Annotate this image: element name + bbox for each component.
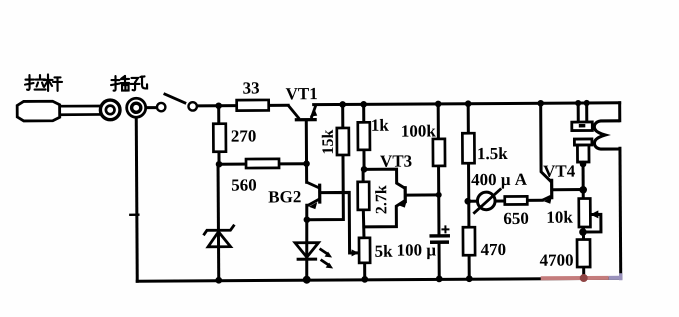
wire VT3 emitter return path <box>364 201 405 227</box>
wire BG2 collector down to LED and bottom <box>305 205 309 280</box>
earphone magnet box <box>577 145 589 162</box>
svg-text:470: 470 <box>481 240 507 259</box>
resistor 100k <box>401 121 445 166</box>
wire earphone pin 1 <box>577 103 580 122</box>
wire 10k to 4700 <box>582 227 585 239</box>
resistor 4700 <box>540 239 591 269</box>
svg-text:VT4: VT4 <box>543 162 576 181</box>
wire earphone pin 2 <box>585 103 588 122</box>
resistor 560 <box>231 159 279 195</box>
svg-text:1.5k: 1.5k <box>477 144 508 163</box>
jack symbol <box>127 98 158 117</box>
wire 1.5k top lead <box>467 104 470 133</box>
transistor VT3 <box>380 152 412 208</box>
resistor 1.5k <box>462 133 508 163</box>
wire bottom rail <box>137 278 620 281</box>
meter 400uA <box>471 170 528 214</box>
transistor VT4 <box>542 162 576 204</box>
wire right edge down to coil <box>618 103 621 121</box>
wire node to 2.7k <box>362 169 365 181</box>
svg-text:15k: 15k <box>320 129 337 154</box>
earphone plate 2 <box>574 139 592 145</box>
resistor 1k <box>358 116 390 150</box>
wire BG2 vertical (VT1 base lead) <box>305 121 308 182</box>
label 拉杆 <box>25 75 46 90</box>
wire 100k bottom lead to capacitor <box>437 166 440 233</box>
wire earphone magnet lead down <box>582 162 585 190</box>
resistor 650 <box>503 196 529 228</box>
wire 1k bottom lead to node <box>362 150 365 170</box>
svg-text:VT1: VT1 <box>286 84 318 103</box>
svg-text:400 μ A: 400 μ A <box>471 170 528 189</box>
wire left edge (jack lead down) <box>136 117 137 281</box>
LED <box>295 243 333 269</box>
switch blade <box>164 93 187 103</box>
zener diode <box>203 225 234 247</box>
capacitor 100uF <box>396 225 450 259</box>
switch contact circle 1 <box>157 103 165 111</box>
wire 5k wiper arrow <box>352 251 357 254</box>
svg-text:1k: 1k <box>371 116 390 135</box>
resistor 33 <box>237 78 269 110</box>
pull rod symbol <box>17 100 120 121</box>
svg-text:33: 33 <box>243 78 260 97</box>
svg-text:4700: 4700 <box>540 251 574 270</box>
wire zener branch down <box>217 164 221 280</box>
wire capacitor bottom lead <box>438 244 441 279</box>
svg-text:2.7k: 2.7k <box>373 185 390 214</box>
wire 1k top lead <box>362 104 365 122</box>
resistor 10k potentiometer <box>546 198 598 227</box>
svg-text:560: 560 <box>231 176 257 195</box>
junction dots bottom rail <box>215 275 472 285</box>
svg-text:100k: 100k <box>401 121 437 140</box>
wire 1.5k bottom lead through meter node to 470 <box>467 163 470 227</box>
svg-text:BG2: BG2 <box>268 187 301 206</box>
earphone plate 1 <box>572 122 593 131</box>
wire VT4 base to earphone node <box>554 188 583 191</box>
junction dots middle <box>216 159 588 238</box>
wire 15k top lead <box>341 104 344 127</box>
wire BG2 collector to 15k return <box>306 155 343 220</box>
wire 2.7k bottom to 5k <box>362 210 366 238</box>
wire 5k bottom lead <box>363 263 366 280</box>
resistor 5k potentiometer <box>351 238 393 263</box>
svg-text:5k: 5k <box>375 242 394 261</box>
svg-text:10k: 10k <box>546 208 573 227</box>
resistor 15k <box>320 128 349 155</box>
junction dots top rail <box>215 100 589 109</box>
resistor 270 <box>213 124 256 152</box>
wire horizontal to 560 and BG2 <box>219 162 306 166</box>
wire VT4 collector to top rail <box>541 103 550 181</box>
wire 270 bottom lead <box>217 152 220 165</box>
wire 10k top lead <box>582 190 585 199</box>
wire 470 bottom lead <box>468 255 471 279</box>
tick mark on left wire <box>130 214 138 216</box>
wire 650 to VT4 emitter <box>527 199 542 202</box>
transistor BG2 <box>268 182 320 209</box>
wire BG2 base to 5k wiper <box>322 192 349 253</box>
resistor 470 <box>463 227 506 259</box>
transistor VT1 <box>286 84 318 120</box>
resistor 2.7k <box>358 182 391 215</box>
wire top rail right (VT1 to right corner) <box>314 103 620 105</box>
label 插孔 <box>111 76 129 91</box>
wire 4700 bottom lead <box>582 267 585 278</box>
wire top rail left (switch to VT1) <box>197 104 288 108</box>
wire 10k wiper loop <box>584 214 601 232</box>
coil (earphone case brace) <box>594 121 620 149</box>
svg-text:270: 270 <box>231 127 257 146</box>
switch contact circle 2 <box>188 102 196 110</box>
wire meter to 650 <box>469 199 505 202</box>
node main input junction <box>217 106 220 124</box>
wire VT3 base to 100k lead <box>407 193 438 196</box>
wire VT3 collector path <box>364 169 405 188</box>
watermark pink remnant on bottom rail <box>541 273 621 282</box>
wire 100k top lead <box>437 104 440 139</box>
svg-text:VT3: VT3 <box>380 152 412 171</box>
svg-text:100 μ: 100 μ <box>397 240 437 259</box>
svg-text:650: 650 <box>503 209 529 228</box>
wire right edge below coil to bottom <box>618 148 622 278</box>
